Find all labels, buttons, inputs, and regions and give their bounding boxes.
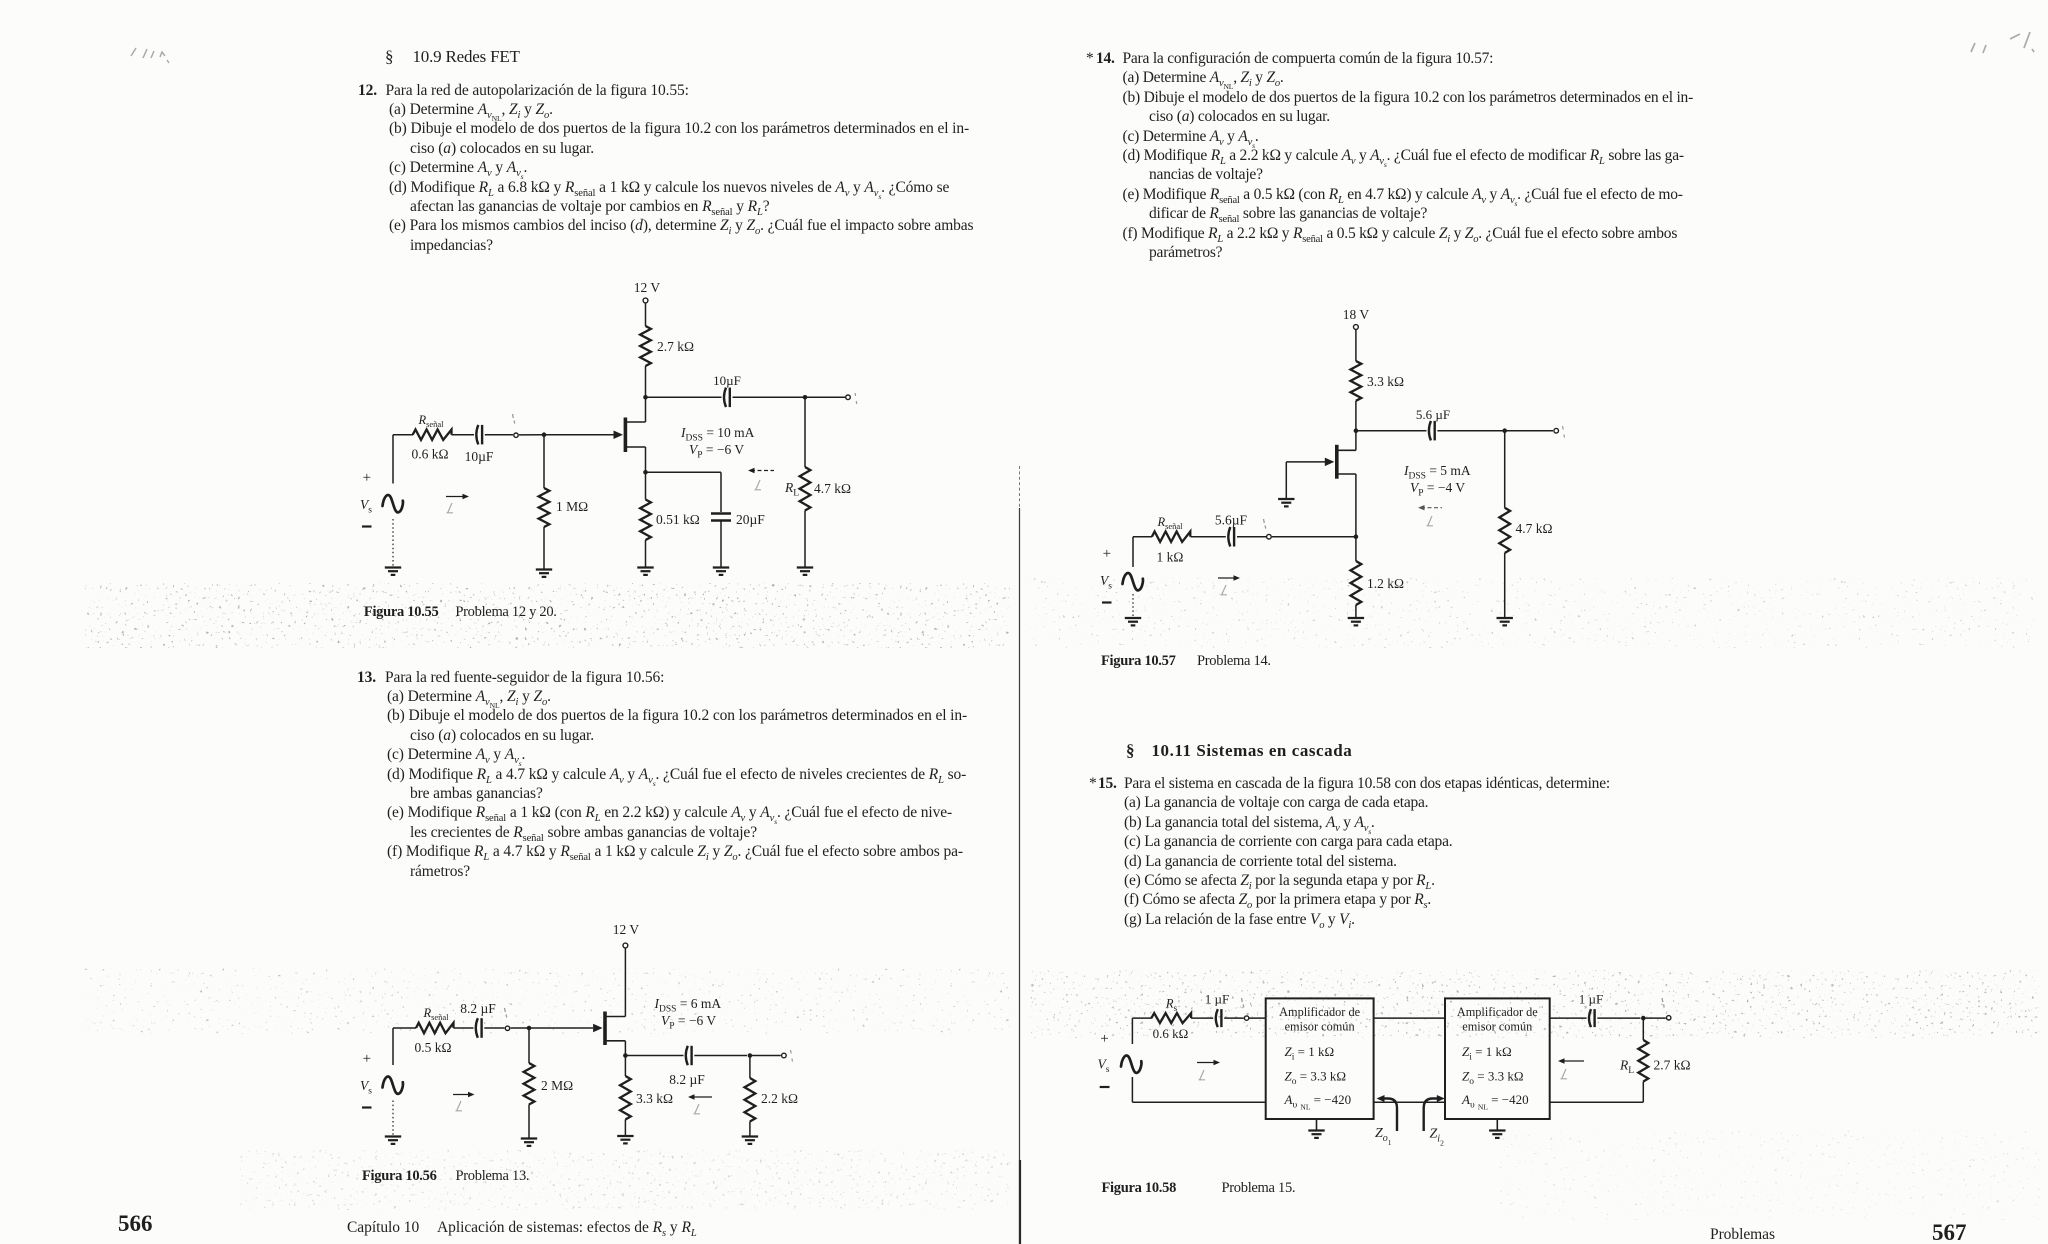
capacitor C2 10uF [724, 388, 726, 408]
wire cap to out node fig57 [1437, 430, 1504, 432]
wire supply to RD fig57 [1355, 330, 1357, 362]
ground Vs fig57 [1125, 617, 1141, 619]
wire Vs to Rsig fig56 [393, 1027, 416, 1029]
wire Vs bottom fig58 [1131, 1077, 1133, 1102]
wire RL to ground [804, 511, 806, 568]
capacitor 5.6uF output [1429, 421, 1431, 441]
terminal Vi fig56 [505, 1026, 509, 1030]
ground RG fig56 [521, 1137, 537, 1139]
svg-text:5.6µF: 5.6µF [1215, 513, 1248, 528]
transistor Q1 JFET [624, 418, 628, 453]
svg-text:10µF: 10µF [713, 373, 741, 388]
resistor RL 4.7k fig57 [1499, 508, 1510, 553]
svg-text:1 µF: 1 µF [1579, 992, 1603, 1007]
svg-text:Zi = 1 kΩ: Zi = 1 kΩ [1285, 1044, 1335, 1063]
ground Vs fig56 [385, 1135, 401, 1137]
wire source down fig57 [1355, 474, 1357, 537]
node output junction fig57 [1502, 428, 1507, 433]
wire source to RS fig56 [624, 1056, 626, 1077]
svg-text:RL: RL [784, 480, 799, 499]
bottom wire right [1550, 1101, 1644, 1103]
svg-text:4.7 kΩ: 4.7 kΩ [814, 481, 851, 496]
svg-text:0.5 kΩ: 0.5 kΩ [414, 1040, 451, 1055]
wire RL top fig57 [1504, 431, 1506, 508]
wire RS to ground fig56 [624, 1120, 626, 1136]
faint mark Vo [855, 393, 857, 404]
supply terminal 12V [643, 298, 648, 303]
wire to output terminal [805, 396, 845, 398]
svg-text:12 V: 12 V [634, 280, 661, 295]
wire box2 to cap fig58 [1550, 1017, 1587, 1019]
arrow Zo fig56 [692, 1096, 713, 1098]
svg-text:VP = −4 V: VP = −4 V [1410, 480, 1465, 499]
ground stage1 [1316, 1119, 1318, 1131]
resistor RS 3.3k [620, 1076, 631, 1120]
wire source lead down [645, 447, 647, 472]
supply terminal fig56 [623, 943, 628, 948]
svg-text:Zo = 3.3 kΩ: Zo = 3.3 kΩ [1462, 1069, 1523, 1088]
wire gate down fig57 [1285, 462, 1287, 499]
node source junction fig56 [623, 1053, 628, 1058]
node RL junction fig58 [1641, 1016, 1646, 1021]
terminal Vo fig57 [1554, 428, 1559, 433]
ground CS [713, 566, 729, 568]
wire gate fig57 [1286, 461, 1325, 463]
wire box1 to box2 [1374, 1017, 1445, 1019]
label minus [362, 525, 372, 527]
wire RL top fig56 [749, 1056, 751, 1079]
faint mark Vi [513, 414, 515, 424]
wire RD to drain [645, 366, 647, 422]
node output junction [803, 395, 808, 400]
svg-text:0.6 kΩ: 0.6 kΩ [1153, 1026, 1189, 1041]
svg-text:IDSS = 10 mA: IDSS = 10 mA [680, 425, 755, 444]
node output junction fig56 [748, 1053, 753, 1058]
resistor RS 0.51k [640, 500, 651, 541]
svg-text:20µF: 20µF [736, 512, 765, 527]
wire Vs down dotted [392, 519, 394, 567]
capacitor CS 20uF [711, 512, 731, 514]
svg-text:Zi = 1 kΩ: Zi = 1 kΩ [1462, 1044, 1512, 1063]
bottom wire left [1132, 1101, 1265, 1103]
ground RL fig56 [742, 1135, 758, 1137]
wire Vs down fig56 [392, 1101, 394, 1137]
transistor Q3 JFET [1335, 445, 1339, 479]
resistor RL 4.7k [800, 467, 811, 511]
wire Rsig to cap fig56 [454, 1027, 474, 1029]
wire RL top [804, 397, 806, 467]
wire Vs up [392, 435, 394, 484]
arrow Zo fig58 [1561, 1060, 1584, 1062]
resistor RS 1.2k [1355, 537, 1357, 561]
wire Rs to cap fig58 [1191, 1017, 1213, 1019]
label minus fig56 [362, 1106, 372, 1108]
svg-text:5.6 µF: 5.6 µF [1416, 407, 1450, 422]
node drain junction fig57 [1354, 428, 1359, 433]
ground RS fig56 [617, 1135, 633, 1137]
wire RL bottom fig58 [1642, 1082, 1644, 1103]
svg-text:0.6 kΩ: 0.6 kΩ [411, 447, 448, 462]
capacitor 5.6uF input [1228, 527, 1230, 547]
wire to Vo fig58 [1643, 1017, 1666, 1019]
transistor Q2 JFET [603, 1012, 607, 1046]
wire gate node to RG fig56 [528, 1028, 530, 1063]
svg-text:Aυ NL = −420: Aυ NL = −420 [1461, 1092, 1529, 1112]
label minus fig58 [1100, 1086, 1110, 1088]
pencil mark top left [131, 48, 169, 63]
faint mark Vo fig58 [1662, 998, 1664, 1008]
wire CS to ground [720, 521, 722, 568]
faint mark Vo fig56 [791, 1050, 793, 1062]
resistor Rsenal 1k fig57 [1152, 532, 1190, 542]
svg-text:Rseñal: Rseñal [1156, 515, 1183, 531]
svg-text:Zo1: Zo1 [1375, 1126, 1392, 1147]
wire RG to ground fig56 [528, 1105, 530, 1139]
faint mark Vi fig57 [1264, 519, 1266, 529]
arrow Zi [446, 496, 466, 498]
wire RD to drain fig57 [1355, 401, 1357, 451]
wire cap to terminal fig58 [1224, 1017, 1244, 1019]
wire Vs top fig58 [1131, 1018, 1133, 1044]
wire gate node to RG [543, 435, 545, 488]
svg-text:8.2 µF: 8.2 µF [669, 1072, 705, 1087]
scan noise band right lower [1030, 970, 2040, 1038]
label Zi faint [447, 503, 454, 513]
page gutter line [1019, 466, 1021, 508]
svg-text:10µF: 10µF [465, 449, 494, 464]
wire input to node fig57 [1272, 536, 1356, 538]
svg-text:Amplificador de: Amplificador de [1279, 1005, 1360, 1019]
wire gate [544, 434, 614, 436]
svg-text:Vs: Vs [360, 1078, 372, 1097]
resistor Rs 0.6k fig58 [1151, 1013, 1191, 1023]
terminal Vo fig56 [782, 1053, 787, 1058]
wire Rsig to cap fig57 [1191, 536, 1226, 538]
output terminal Vo [846, 395, 851, 400]
resistor Rsenal 0.5k [416, 1023, 454, 1033]
label Zo faint fig58 [1561, 1069, 1568, 1079]
ground RS fig57 [1348, 617, 1364, 619]
capacitor 1uF input fig58 [1216, 1009, 1218, 1027]
svg-text:Amplificador de: Amplificador de [1457, 1005, 1538, 1019]
capacitor 1uF output fig58 [1589, 1009, 1591, 1027]
resistor RG 2M [524, 1063, 535, 1105]
wire C1 to Vi terminal [485, 434, 513, 436]
svg-text:+: + [1103, 546, 1111, 562]
svg-text:8.2 µF: 8.2 µF [460, 1001, 496, 1016]
svg-text:Rseñal: Rseñal [417, 413, 444, 429]
wire supply to drain fig56 [624, 948, 626, 1017]
arrow Zi2 [1424, 1099, 1437, 1132]
svg-text:1 kΩ: 1 kΩ [1157, 550, 1184, 565]
svg-text:Zi2: Zi2 [1430, 1127, 1445, 1148]
scan noise band left mid [85, 583, 1010, 648]
wire RS to ground [645, 540, 647, 567]
svg-text:+: + [1100, 1031, 1108, 1047]
wire Rsig to C1 [452, 434, 475, 436]
wire supply to RD [645, 303, 647, 326]
node drain junction [643, 395, 648, 400]
ground stage2 [1496, 1119, 1498, 1131]
ground RL fig57 [1497, 617, 1513, 619]
wire source to RS [645, 472, 647, 499]
wire to Vo fig57 [1505, 430, 1553, 432]
wire Vs down to sine fig57 [1132, 537, 1134, 567]
wire top to Rs [1132, 1017, 1151, 1019]
wire RG to ground [543, 527, 545, 569]
arrow Zi fig57 [1218, 577, 1237, 579]
label Zo faint [755, 480, 762, 490]
ground RL [797, 566, 813, 568]
source Vs sine fig58 [1121, 1055, 1141, 1072]
label Zo faint fig56 [694, 1104, 701, 1114]
wire RS to ground fig57 [1355, 605, 1357, 618]
svg-text:3.3 kΩ: 3.3 kΩ [1367, 374, 1404, 389]
wire cap to out node fig56 [694, 1055, 747, 1057]
scan noise band left lower [85, 968, 1010, 1034]
node source junction [643, 470, 648, 475]
node source junction fig57 [1354, 534, 1359, 539]
supply terminal 18V [1354, 325, 1359, 330]
scan noise band bottom right [1500, 1130, 2040, 1220]
wire Vs to Rsig [393, 434, 413, 436]
svg-text:+: + [363, 1051, 371, 1067]
svg-text:0.51 kΩ: 0.51 kΩ [656, 512, 700, 527]
ground Vs [385, 566, 401, 568]
label Zi faint fig58 [1199, 1070, 1206, 1080]
resistor RD 2.7k [640, 326, 651, 366]
wire terminal to box1 [1249, 1017, 1266, 1019]
capacitor 8.2uF output [686, 1046, 688, 1065]
svg-text:1 µF: 1 µF [1205, 992, 1229, 1007]
svg-text:2 MΩ: 2 MΩ [541, 1078, 573, 1093]
wire C2 to RL node [733, 396, 806, 398]
bottom wire mid [1374, 1101, 1445, 1103]
arrow Zo fig57 [1421, 507, 1442, 509]
svg-text:+: + [363, 470, 371, 486]
scan noise band right mid [1030, 578, 2035, 648]
svg-text:emisor común: emisor común [1285, 1020, 1355, 1034]
resistor RG 1M [539, 488, 550, 527]
source Vs sine [383, 495, 403, 512]
wire Vs up fig56 [392, 1028, 394, 1065]
svg-text:12 V: 12 V [613, 922, 640, 937]
wire drain to C2 [646, 396, 722, 398]
svg-text:Vs: Vs [360, 497, 372, 516]
capacitor C1 10uF input [476, 425, 478, 445]
label minus fig57 [1102, 601, 1112, 603]
wire Vs to ground fig57 [1132, 594, 1134, 618]
svg-text:VP = −6 V: VP = −6 V [689, 442, 744, 461]
svg-text:2.7 kΩ: 2.7 kΩ [657, 339, 694, 354]
label Zo faint fig57 [1427, 516, 1434, 526]
wire Vi to gate node fig56 [511, 1027, 530, 1029]
arrow Zo1 [1384, 1099, 1397, 1132]
resistor RD 3.3k fig57 [1351, 361, 1362, 401]
wire gate fig56 [529, 1027, 593, 1029]
wire to Vo fig56 [750, 1055, 781, 1057]
label Zi faint fig57 [1221, 585, 1228, 595]
wire source to CS [646, 471, 722, 473]
capacitor 8.2uF input [476, 1018, 478, 1038]
node gate junction [542, 432, 547, 437]
wire Vs to Rsig fig57 [1133, 536, 1152, 538]
arrow Zi fig56 [453, 1094, 471, 1096]
wire source to out cap fig56 [625, 1055, 683, 1057]
faint mark Vi fig56 [505, 1008, 507, 1018]
amplifier stage 2 box [1445, 998, 1550, 1119]
svg-text:RL: RL [1619, 1058, 1634, 1077]
svg-text:2.2 kΩ: 2.2 kΩ [761, 1091, 798, 1106]
ground RG [536, 568, 552, 570]
wire RL to ground fig56 [749, 1122, 751, 1137]
scan noise band bottom left [240, 1150, 1010, 1210]
svg-text:emisor común: emisor común [1462, 1020, 1532, 1034]
amplifier stage 1 box [1266, 998, 1374, 1119]
wire drain to cap fig57 [1356, 430, 1427, 432]
node gate junction fig56 [527, 1026, 532, 1031]
resistor RL 2.2k [745, 1078, 756, 1122]
svg-text:IDSS = 5 mA: IDSS = 5 mA [1403, 463, 1471, 482]
svg-text:Aυ NL = −420: Aυ NL = −420 [1284, 1092, 1352, 1112]
svg-text:2.7 kΩ: 2.7 kΩ [1654, 1058, 1691, 1073]
wire Vi to gate node [519, 434, 544, 436]
ground RS [637, 566, 653, 568]
terminal Vi fig57 [1267, 534, 1272, 539]
terminal Vi [514, 433, 518, 437]
resistor Rsenal 0.6k [413, 430, 452, 440]
ground gate fig57 [1278, 498, 1294, 500]
wire RL to ground fig57 [1504, 553, 1506, 618]
source Vs sine fig56 [383, 1076, 403, 1093]
svg-text:18 V: 18 V [1343, 307, 1370, 322]
svg-text:1.2 kΩ: 1.2 kΩ [1367, 576, 1404, 591]
terminal stage1 input [1244, 1016, 1248, 1020]
svg-text:Vs: Vs [1098, 1057, 1110, 1076]
svg-text:3.3 kΩ: 3.3 kΩ [636, 1091, 673, 1106]
svg-text:1 MΩ: 1 MΩ [556, 499, 588, 514]
terminal Vo fig58 [1667, 1016, 1671, 1020]
wire source lead down fig56 [624, 1041, 626, 1056]
arrow Zi fig58 [1197, 1062, 1217, 1064]
label Zi faint fig56 [456, 1101, 463, 1111]
svg-text:4.7 kΩ: 4.7 kΩ [1516, 521, 1553, 536]
arrow Zo [751, 470, 774, 472]
wire cap to Vi fig56 [484, 1027, 504, 1029]
svg-text:Zo = 3.3 kΩ: Zo = 3.3 kΩ [1285, 1069, 1346, 1088]
wire cap to RL node fig58 [1597, 1017, 1640, 1019]
resistor RL 2.7k fig58 [1642, 1018, 1644, 1040]
pencil mark top right [1971, 32, 2034, 53]
faint mark Vo fig57 [1563, 426, 1565, 438]
faint mark Vi fig58 [1242, 998, 1244, 1008]
source Vs sine fig57 [1123, 573, 1143, 590]
wire cap to Vi fig57 [1237, 536, 1266, 538]
